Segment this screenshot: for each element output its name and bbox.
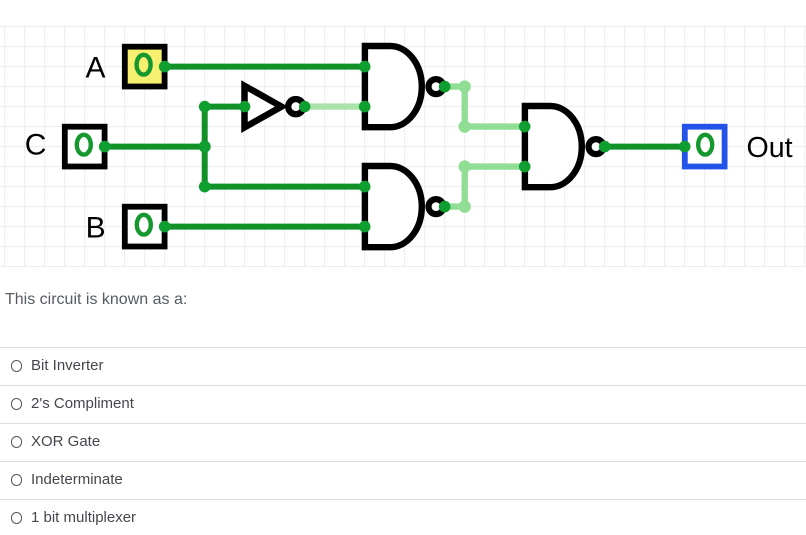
input C box bbox=[65, 127, 105, 167]
node NAND1 output bbox=[439, 81, 451, 93]
node NAND3 input bottom bbox=[519, 161, 531, 173]
output Out box bbox=[685, 127, 725, 167]
option text 4 bbox=[31, 472, 123, 487]
node NAND1 input top bbox=[359, 61, 371, 73]
node Out input bbox=[679, 141, 691, 153]
node NAND2 input top bbox=[359, 181, 371, 193]
node A output bbox=[159, 61, 171, 73]
divider 2 bbox=[0, 385, 806, 386]
node junction bottom bbox=[199, 181, 211, 193]
svg-text:C: C bbox=[25, 129, 47, 162]
node junction top bbox=[199, 101, 211, 113]
divider 3 bbox=[0, 423, 806, 424]
divider 4 bbox=[0, 461, 806, 462]
label A bbox=[85, 51, 105, 84]
label B bbox=[86, 211, 106, 244]
option text 3 bbox=[31, 434, 100, 449]
grid canvas bbox=[0, 26, 806, 268]
wire junction to NAND2 top input bbox=[205, 184, 365, 190]
wire NOT output to NAND1 (light, value 1) bbox=[305, 103, 365, 109]
node junction mid bbox=[199, 141, 211, 153]
svg-text:Out: Out bbox=[747, 132, 793, 164]
input A box (selected, yellow) bbox=[125, 47, 165, 87]
option text 1 bbox=[31, 358, 104, 373]
label Out bbox=[747, 132, 793, 164]
NOT gate U1 bbox=[245, 86, 304, 128]
NAND gate U2 (top) bbox=[365, 46, 444, 127]
input B box bbox=[125, 207, 165, 247]
node NOT input bbox=[239, 101, 250, 112]
option text 5 bbox=[31, 510, 136, 525]
node NOT output bbox=[299, 101, 310, 112]
option radio 4 bbox=[11, 474, 23, 486]
divider 5 bbox=[0, 499, 806, 500]
option text 2 bbox=[31, 396, 134, 411]
wire NAND3 output to Out bbox=[605, 144, 685, 150]
node B output bbox=[159, 221, 171, 233]
label C bbox=[25, 129, 47, 162]
wire NAND1 output to NAND3 (light, value 1) bbox=[445, 80, 525, 132]
node NAND2 output bbox=[439, 201, 451, 213]
wire B to NAND2 bbox=[165, 224, 365, 230]
option radio 5 bbox=[11, 512, 23, 524]
wire junction vertical bbox=[202, 107, 208, 187]
option radio 3 bbox=[11, 436, 23, 448]
node NAND2 input bottom bbox=[359, 221, 371, 233]
option radio 2 bbox=[11, 398, 23, 410]
NAND gate U3 (bottom) bbox=[365, 166, 444, 247]
question text bbox=[5, 291, 187, 308]
divider 1 bbox=[0, 347, 806, 348]
option radio 1 bbox=[11, 360, 23, 372]
wire NAND2 output to NAND3 (light, value 1) bbox=[445, 160, 525, 212]
wire junction to NOT input bbox=[205, 104, 245, 110]
wire C to junction bbox=[105, 144, 205, 150]
wire A to NAND1 bbox=[165, 64, 365, 70]
node C output bbox=[99, 141, 111, 153]
svg-text:B: B bbox=[86, 211, 106, 244]
node NAND3 output bbox=[599, 141, 611, 153]
node NAND3 input top bbox=[519, 121, 531, 133]
NAND gate U4 (output) bbox=[525, 106, 604, 187]
node NAND1 input bottom bbox=[359, 101, 371, 113]
svg-text:A: A bbox=[85, 51, 105, 84]
